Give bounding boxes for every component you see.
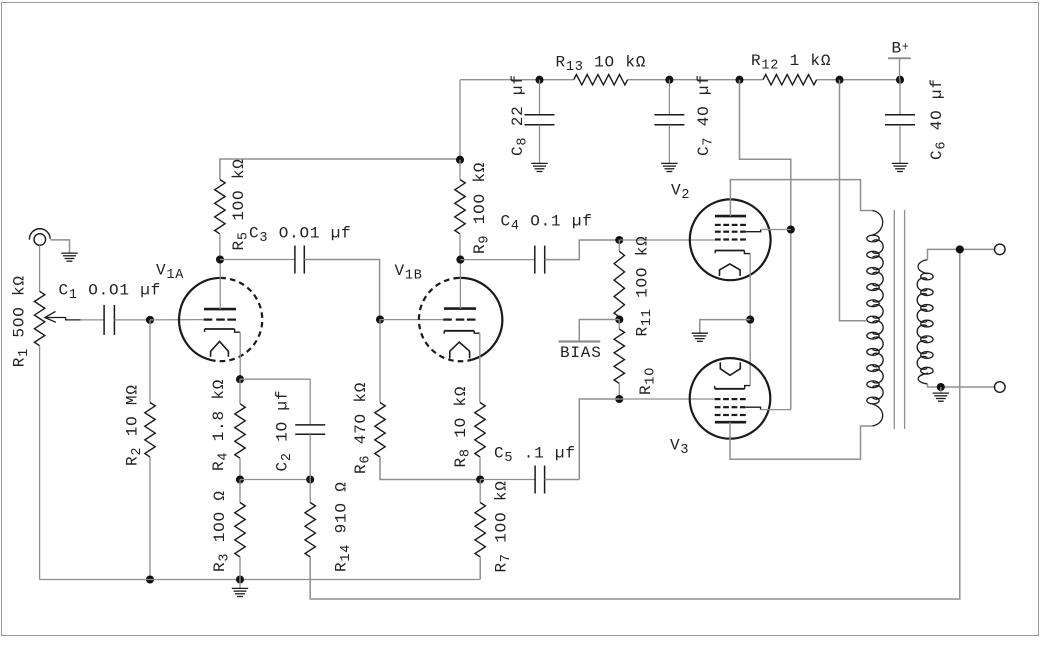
svg-text:C5​ .1 µf: C5​ .1 µf bbox=[494, 445, 576, 467]
svg-text:R3​ 1OO Ω: R3​ 1OO Ω bbox=[211, 490, 233, 572]
svg-text:R13​ 1O kΩ: R13​ 1O kΩ bbox=[556, 54, 647, 76]
svg-text:C7​ 4O µf: C7​ 4O µf bbox=[695, 74, 717, 156]
svg-text:C1​ O.O1 µf: C1​ O.O1 µf bbox=[59, 282, 162, 304]
svg-text:R14​ 91O Ω: R14​ 91O Ω bbox=[333, 481, 355, 572]
svg-text:R9​ 1OO kΩ: R9​ 1OO kΩ bbox=[471, 162, 493, 254]
svg-text:V1A​: V1A​ bbox=[156, 262, 184, 284]
svg-text:R11​ 1OO kΩ: R11​ 1OO kΩ bbox=[634, 235, 656, 336]
svg-text:C6​ 4O µf: C6​ 4O µf bbox=[928, 78, 950, 160]
svg-text:V1B​: V1B​ bbox=[395, 262, 423, 284]
svg-text:C4​ O.1 µf: C4​ O.1 µf bbox=[501, 213, 593, 235]
svg-text:B+: B+ bbox=[892, 40, 910, 58]
svg-text:R4​ 1.8 kΩ: R4​ 1.8 kΩ bbox=[210, 379, 232, 471]
svg-text:V3​: V3​ bbox=[670, 437, 689, 459]
svg-text:C2​ 1O µf: C2​ 1O µf bbox=[274, 390, 296, 472]
svg-text:R8​ 1O kΩ: R8​ 1O kΩ bbox=[452, 386, 474, 468]
svg-text:BIAS: BIAS bbox=[560, 344, 602, 362]
svg-text:R1​ 5OO kΩ: R1​ 5OO kΩ bbox=[11, 275, 33, 367]
svg-text:V2​: V2​ bbox=[671, 182, 690, 204]
svg-text:C3​ O.O1 µf: C3​ O.O1 µf bbox=[249, 225, 352, 247]
svg-text:R7​ 1OO kΩ: R7​ 1OO kΩ bbox=[493, 480, 515, 572]
svg-text:R2​ 1O MΩ: R2​ 1O MΩ bbox=[124, 384, 146, 466]
svg-text:R12​ 1 kΩ: R12​ 1 kΩ bbox=[751, 52, 831, 74]
svg-text:R6​ 47O kΩ: R6​ 47O kΩ bbox=[352, 382, 374, 474]
svg-text:R1O​: R1O​ bbox=[637, 367, 659, 395]
